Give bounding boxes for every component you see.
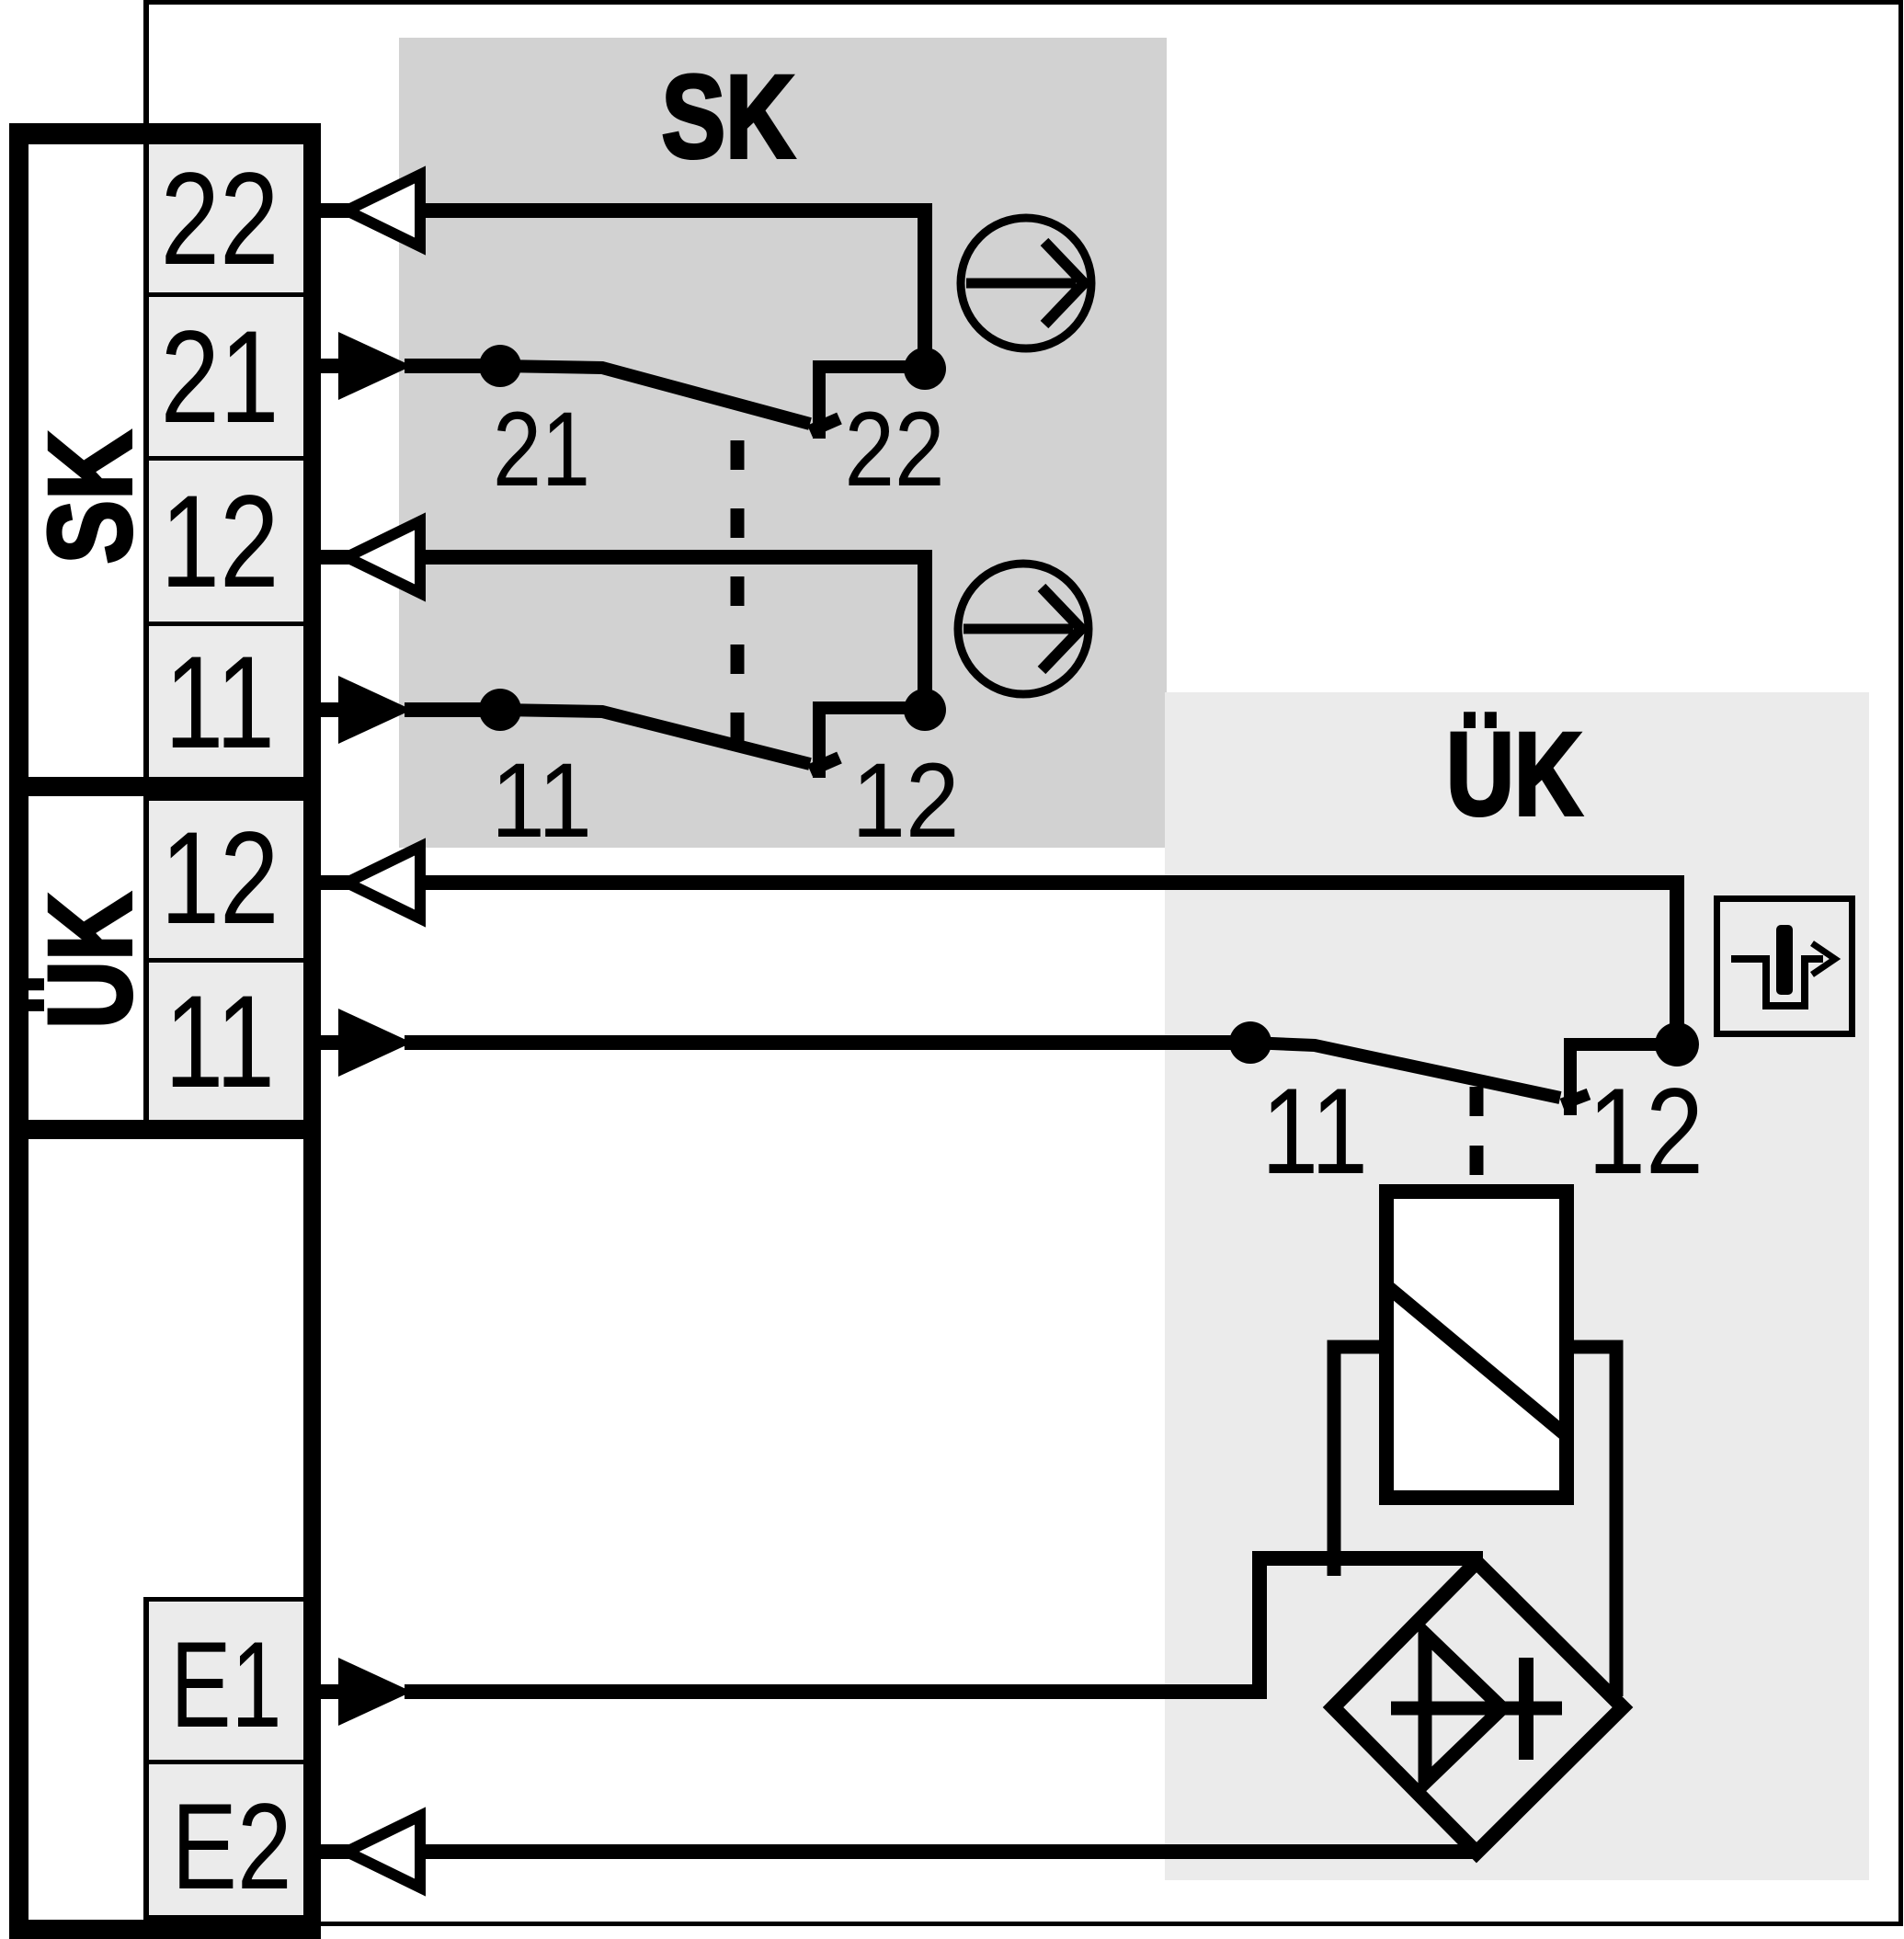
SK terminal strip left thin line — [143, 144, 149, 777]
coil left lead — [1334, 1347, 1379, 1576]
SK contact-chamber panel (dark gray) — [399, 38, 1167, 848]
separator 12/11 — [143, 622, 303, 626]
relay coil diagonal — [1388, 1287, 1565, 1434]
svg-text:11: 11 — [165, 969, 275, 1115]
switch blade UK 11-12 — [1250, 1043, 1560, 1098]
terminal 12 stub wire — [321, 550, 349, 565]
terminal 11 input arrow (filled) — [338, 676, 412, 744]
svg-text:ÜK: ÜK — [25, 893, 156, 1029]
outer frame left stub — [143, 0, 149, 123]
separator UK 12/11 — [143, 958, 303, 963]
svg-text:SK: SK — [25, 431, 156, 565]
bridge rectifier diamond — [1333, 1562, 1623, 1853]
wire 11 to contact — [405, 702, 500, 717]
positive opening symbol box — [1717, 899, 1853, 1034]
outer frame top border — [143, 0, 1903, 5]
contact dot UK11 — [1229, 1021, 1271, 1064]
terminal UK12 output arrow (open) — [347, 847, 420, 918]
terminal 22 stub wire — [321, 203, 349, 218]
svg-text:12: 12 — [1588, 1064, 1704, 1200]
actuator arrow head bottom — [1042, 587, 1081, 670]
positive opening symbol path — [1731, 959, 1823, 1006]
separator E1/E2 — [143, 1760, 303, 1764]
svg-text:11: 11 — [165, 630, 275, 776]
E terminal strip background — [149, 1602, 303, 1915]
contact dot 11 — [479, 689, 521, 731]
svg-text:E1: E1 — [171, 1617, 282, 1753]
switch blade 21-22 — [500, 366, 810, 424]
svg-text:21: 21 — [493, 391, 590, 508]
E terminal strip top thin line — [143, 1597, 303, 1602]
terminal 22 output arrow (open) — [347, 175, 420, 246]
actuator circle icon top — [961, 218, 1091, 348]
terminal UK11 input arrow (filled) — [338, 1009, 412, 1077]
rectifier diode triangle — [1425, 1634, 1502, 1783]
svg-text:12: 12 — [161, 469, 279, 615]
svg-text:22: 22 — [161, 146, 279, 292]
svg-text:11: 11 — [491, 742, 592, 860]
actuator circle icon bottom — [958, 564, 1089, 694]
UK terminal strip background — [149, 801, 303, 1120]
actuator arrow top — [966, 279, 1076, 289]
positive opening symbol arrow head — [1812, 943, 1835, 975]
svg-text:12: 12 — [852, 742, 960, 860]
wire 22 to contact — [420, 211, 925, 369]
wire UK12 to contact — [420, 883, 1677, 1044]
separator 22/21 — [143, 292, 303, 297]
terminal UK11 stub wire — [321, 1035, 345, 1050]
terminal block bottom bar — [9, 1920, 321, 1939]
wire E2 to rectifier — [420, 1844, 1479, 1859]
blade tip tick UK12 — [1562, 1094, 1589, 1104]
wire UK11 to contact — [405, 1035, 1250, 1050]
UK contact-chamber panel (light gray) — [1165, 692, 1869, 1880]
wire E1 to rectifier — [405, 1558, 1483, 1692]
svg-text:ÜK: ÜK — [1446, 709, 1582, 840]
rectifier diode axis — [1391, 1702, 1562, 1716]
contact dot UK12 — [1655, 1022, 1699, 1066]
svg-text:22: 22 — [845, 391, 945, 508]
E terminal strip left thin line — [143, 1597, 149, 1920]
svg-text:E2: E2 — [172, 1779, 292, 1915]
svg-text:12: 12 — [161, 805, 279, 952]
fixed contact hook 12 — [819, 708, 925, 778]
svg-text:21: 21 — [161, 304, 279, 451]
mechanical link dashed line UK — [1470, 1087, 1484, 1184]
divider bar between SK and UK blocks — [9, 777, 321, 796]
terminal 21 input arrow (filled) — [338, 332, 412, 400]
blade tip tick 12 — [810, 758, 839, 770]
contact dot 21 — [479, 345, 521, 387]
terminal 21 stub wire — [321, 359, 345, 373]
outer frame right border — [1898, 0, 1903, 1925]
UK terminal strip left thin line — [143, 796, 149, 1120]
separator 21/12 — [143, 456, 303, 461]
actuator arrow bottom — [963, 624, 1073, 634]
UK terminal strip top thin line — [143, 796, 303, 801]
SK terminal strip background — [149, 144, 303, 777]
terminal UK12 stub wire — [321, 875, 349, 890]
contact dot 22 — [904, 348, 946, 390]
terminal E1 stub wire — [321, 1684, 345, 1699]
blade tip tick 22 — [810, 418, 839, 431]
wire 21 to contact — [405, 359, 500, 373]
mechanical link dashed line SK — [731, 440, 745, 742]
terminal block top bar — [9, 123, 321, 144]
contact dot 12 — [904, 689, 946, 731]
fixed contact hook UK12 — [1570, 1044, 1677, 1115]
terminal 11 stub wire — [321, 702, 345, 717]
actuator arrow head top — [1044, 242, 1084, 325]
relay coil rectangle — [1386, 1192, 1567, 1498]
E terminal strip bottom thin line — [143, 1915, 303, 1920]
switch blade 11-12 — [500, 710, 810, 764]
terminal block right bar — [303, 123, 321, 1939]
outer frame bottom border — [311, 1922, 1903, 1926]
terminal block left bar — [9, 123, 29, 1939]
coil right lead — [1574, 1347, 1616, 1696]
terminal 12 output arrow (open) — [347, 521, 420, 593]
UK block bottom bar — [9, 1120, 321, 1139]
terminal E2 stub wire — [321, 1844, 349, 1859]
terminal E1 input arrow (filled) — [338, 1658, 412, 1726]
positive opening symbol plunger bar — [1776, 925, 1793, 995]
wire 12 to contact — [420, 557, 925, 710]
svg-text:SK: SK — [662, 51, 795, 183]
fixed contact hook 22 — [819, 367, 925, 439]
terminal E2 output arrow (open) — [347, 1816, 420, 1888]
rectifier diode cathode bar — [1519, 1658, 1533, 1760]
svg-text:11: 11 — [1261, 1064, 1368, 1200]
